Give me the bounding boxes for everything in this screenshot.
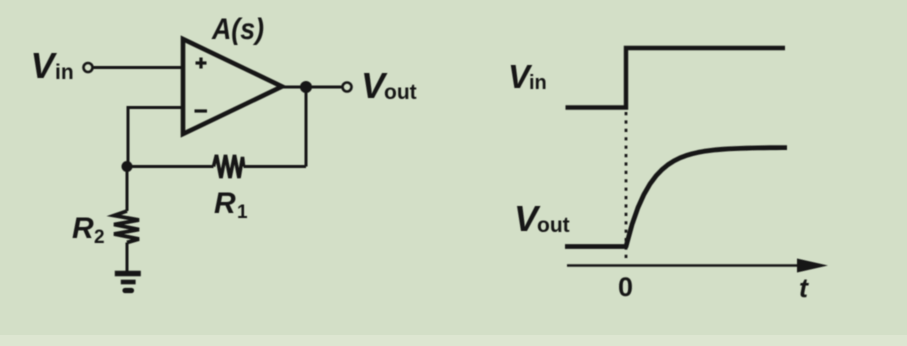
label Vin (circuit input) <box>31 45 74 86</box>
output terminal (open circle) <box>343 83 352 92</box>
wire: feedback node down to R2 <box>126 167 129 212</box>
svg-text:in: in <box>529 72 547 94</box>
wire: output node down to feedback <box>305 87 308 167</box>
op-amp - input marking <box>195 109 208 112</box>
svg-text:0: 0 <box>618 272 633 302</box>
wire: feedback right segment <box>244 165 307 168</box>
label Vout (graph) <box>514 198 570 239</box>
svg-text:out: out <box>537 214 570 237</box>
svg-text:in: in <box>55 61 74 84</box>
wire: R2 to ground <box>126 243 129 273</box>
svg-text:out: out <box>384 81 417 104</box>
wire: Vin terminal to op-amp + input <box>94 66 184 69</box>
node: output junction dot <box>300 81 312 93</box>
svg-text:R: R <box>214 187 236 220</box>
svg-text:V: V <box>31 45 58 86</box>
input terminal (open circle) <box>84 63 93 72</box>
dotted line at t=0 <box>625 112 628 263</box>
op-amp + input marking <box>196 58 207 69</box>
label R1 <box>214 187 248 223</box>
node: feedback junction dot <box>122 161 133 172</box>
op-amp U1 (A(s)) triangle <box>183 39 282 134</box>
wire: feedback left segment <box>127 165 214 168</box>
waveform: Vout exponential response <box>565 148 787 247</box>
time axis with arrow <box>567 259 828 273</box>
svg-text:R: R <box>72 212 94 245</box>
wire: inverting input down to feedback node <box>127 106 130 167</box>
label Vout (circuit output) <box>361 65 417 106</box>
ground symbol <box>115 274 141 291</box>
label Vin (graph) <box>508 58 547 95</box>
svg-text:A(s): A(s) <box>211 13 264 46</box>
svg-text:t: t <box>799 273 809 303</box>
wire: inverting input horizontal <box>128 106 183 109</box>
waveform: Vin step <box>566 48 786 108</box>
resistor R1 (feedback zigzag) <box>214 155 244 178</box>
svg-text:1: 1 <box>237 202 248 223</box>
wire: op-amp output <box>280 86 342 89</box>
svg-text:2: 2 <box>94 227 105 248</box>
resistor R2 (vertical zigzag) <box>114 211 139 243</box>
label R2 <box>72 212 105 248</box>
